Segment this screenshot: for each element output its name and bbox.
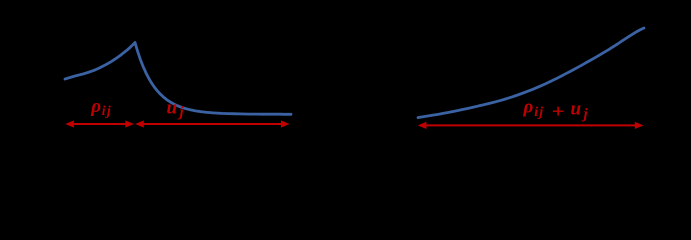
arrow u_j span [135,120,289,127]
left pdf curve (Laplace-like peak) [65,43,291,115]
svg-text:j: j [582,106,589,122]
svg-text:ρ: ρ [523,97,534,118]
svg-text:u: u [167,97,178,118]
svg-text:ρ: ρ [90,96,101,117]
svg-text:ij: ij [534,105,544,120]
arrow rho_ij span [65,120,134,127]
svg-text:j: j [178,105,185,121]
right pdf curve (rising) [418,28,644,118]
arrow rho_ij+u_j span [418,122,644,129]
svg-text:ij: ij [102,103,112,118]
svg-text:u: u [571,98,582,119]
svg-text:+: + [552,102,565,122]
